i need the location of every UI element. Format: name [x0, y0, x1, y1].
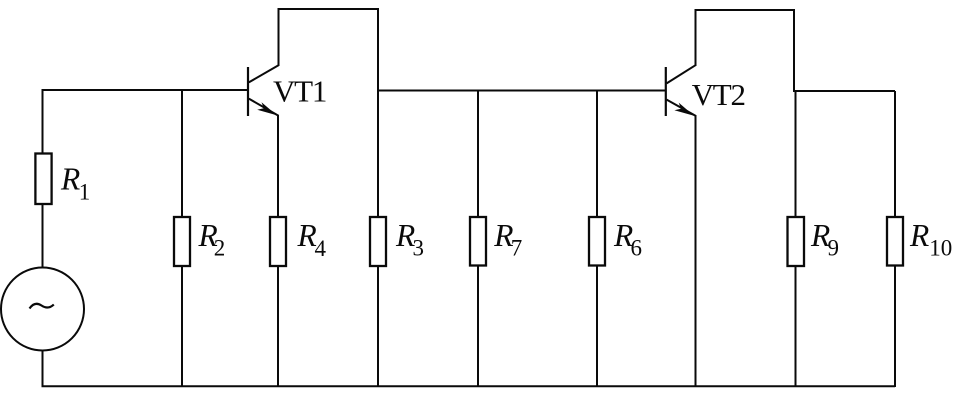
svg-text:2: 2 — [214, 236, 226, 261]
svg-text:6: 6 — [631, 236, 643, 261]
svg-text:1: 1 — [79, 180, 91, 205]
svg-text:R: R — [60, 162, 80, 197]
svg-text:VT1: VT1 — [273, 74, 326, 109]
svg-text:4: 4 — [315, 236, 327, 261]
svg-text:7: 7 — [511, 236, 523, 261]
svg-text:9: 9 — [828, 236, 840, 261]
svg-text:R: R — [909, 218, 929, 253]
svg-text:VT2: VT2 — [692, 77, 745, 112]
svg-text:10: 10 — [929, 236, 952, 261]
svg-text:3: 3 — [413, 236, 425, 261]
